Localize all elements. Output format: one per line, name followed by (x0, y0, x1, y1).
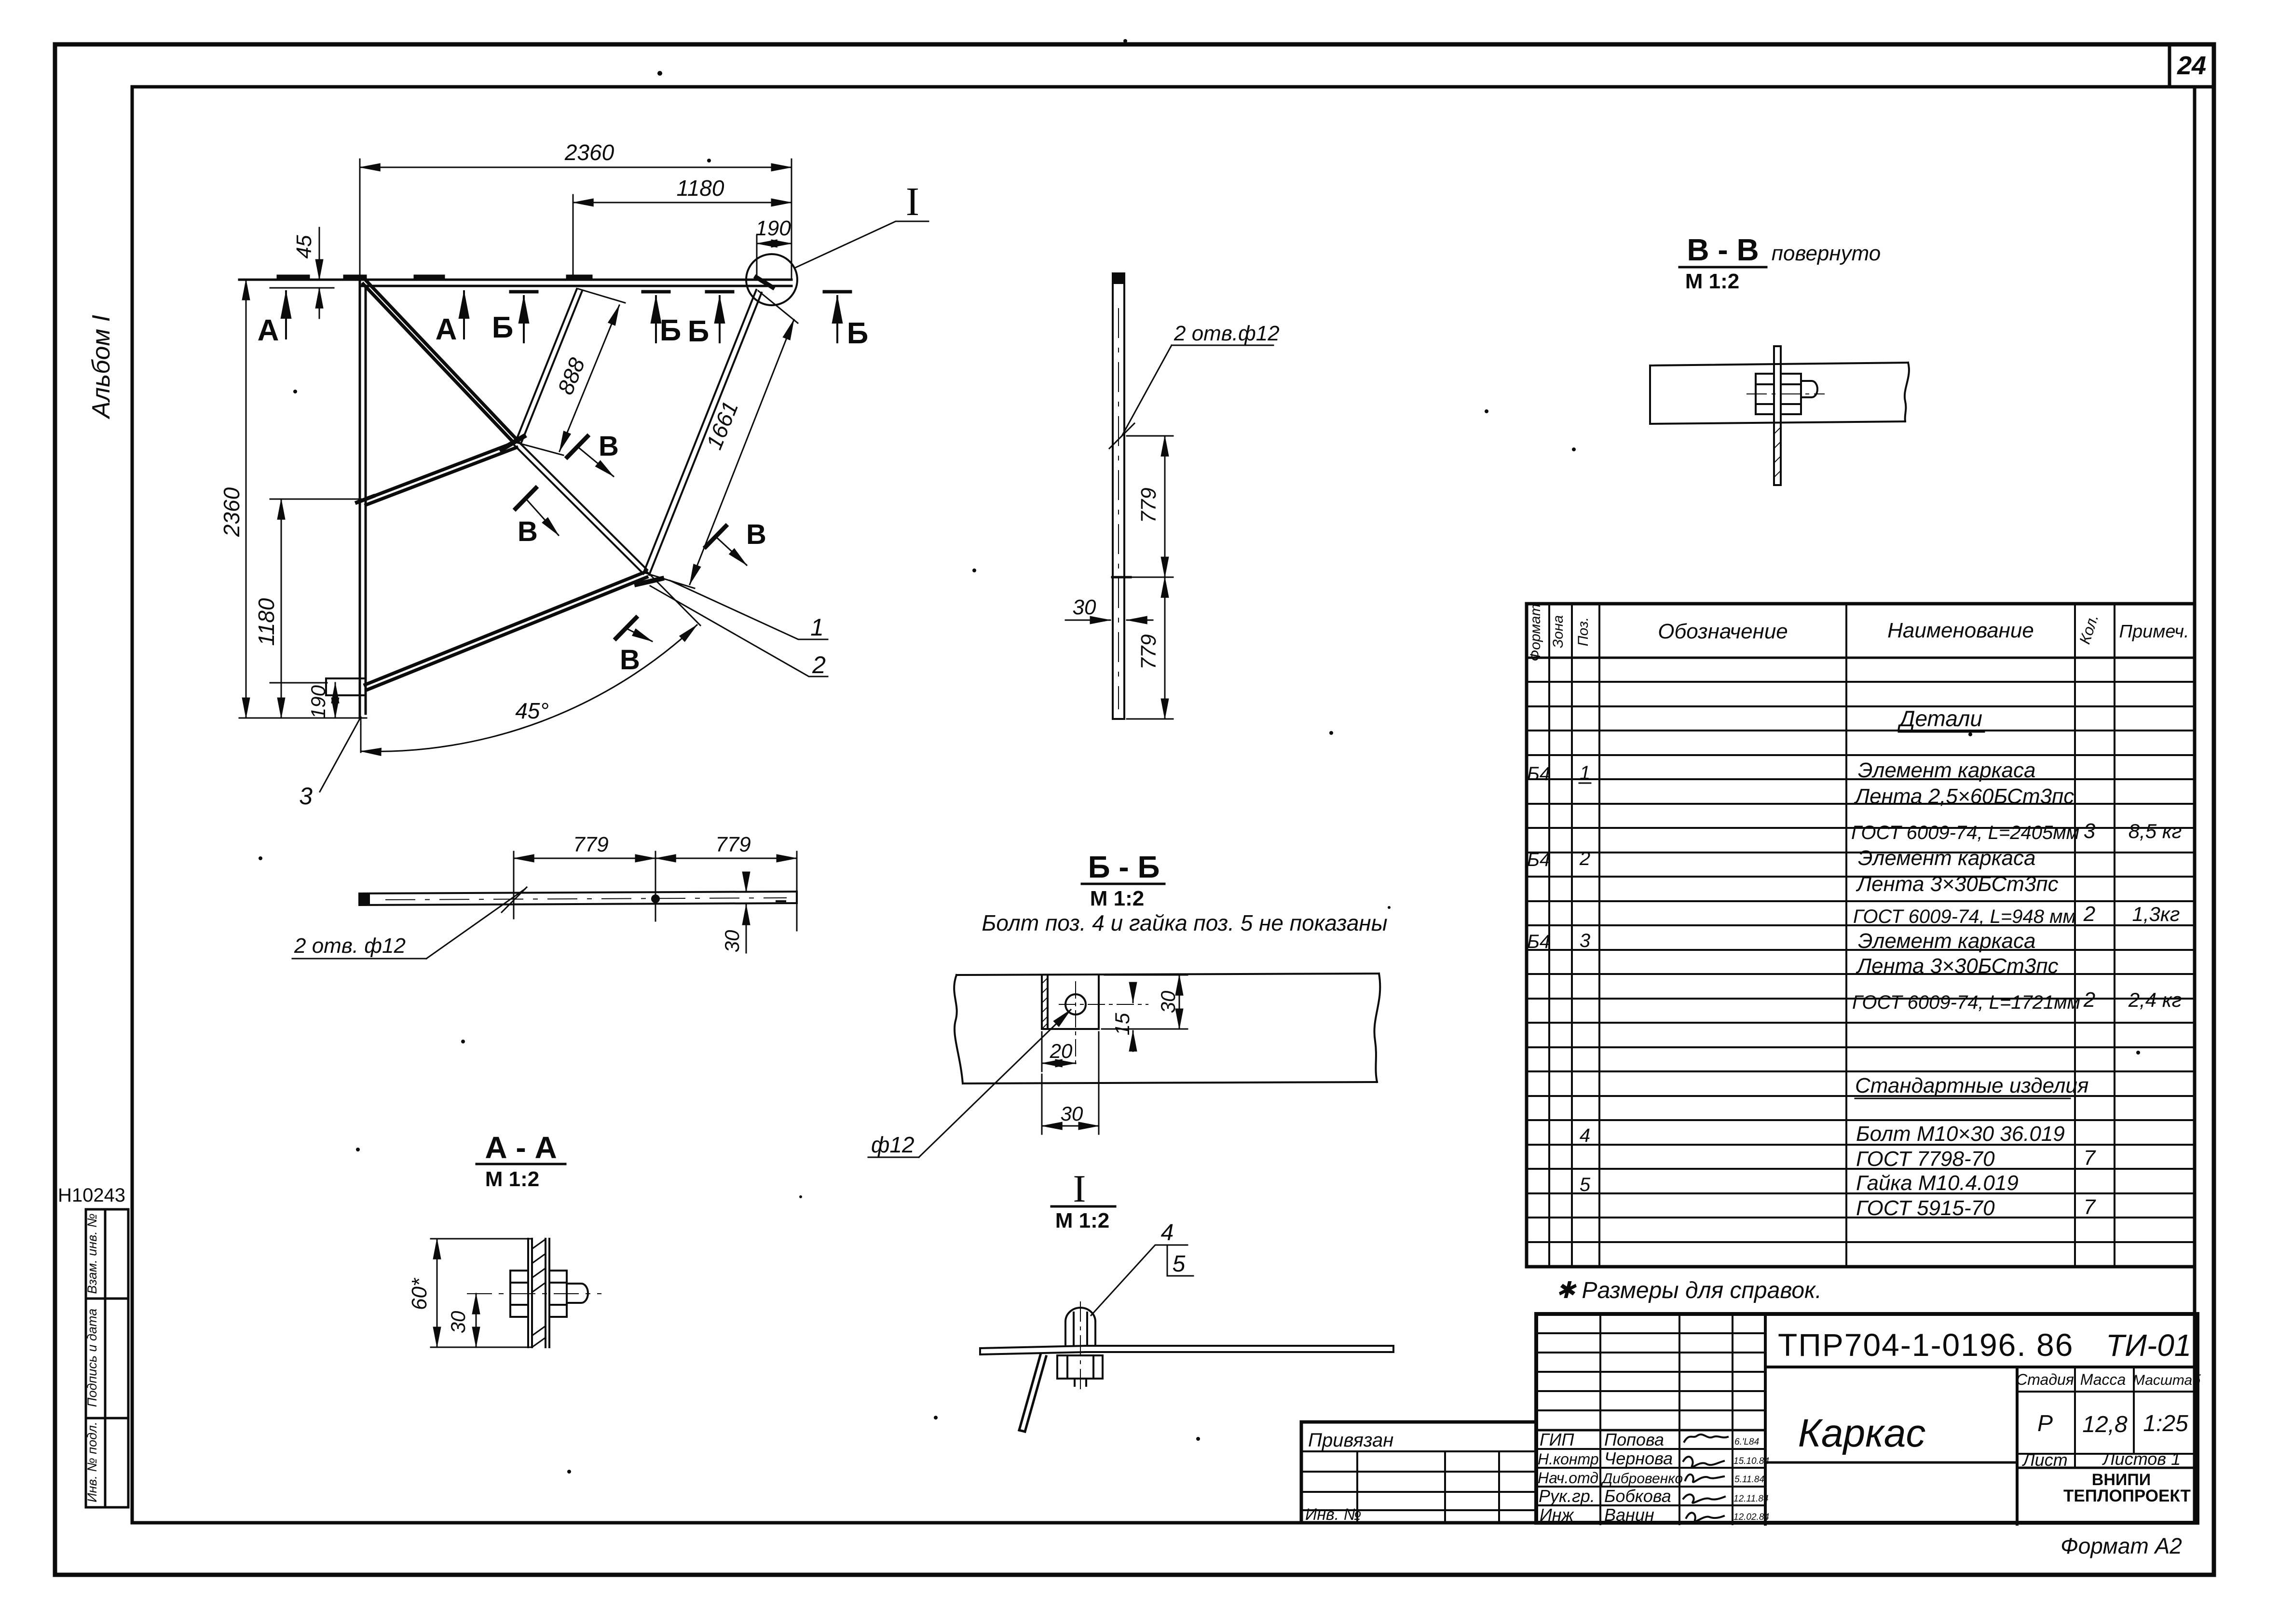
svg-text:Ванин: Ванин (1604, 1505, 1654, 1525)
svg-text:2: 2 (2083, 988, 2095, 1012)
svg-text:Б: Б (847, 317, 869, 350)
svg-text:190: 190 (307, 685, 329, 719)
svg-text:М 1:2: М 1:2 (1685, 270, 1739, 293)
svg-text:В: В (599, 431, 619, 462)
lower strut (pos 3) (365, 572, 647, 690)
svg-text:Формат А2: Формат А2 (2061, 1533, 2182, 1558)
svg-text:Р: Р (2037, 1411, 2053, 1436)
svg-text:Б4: Б4 (1527, 931, 1550, 952)
dim 1180 top (573, 195, 792, 279)
svg-text:Обозначение: Обозначение (1658, 620, 1788, 643)
svg-text:1,3кг: 1,3кг (2132, 903, 2180, 925)
svg-text:Болт поз. 4 и гайка поз. 5 не: Болт поз. 4 и гайка поз. 5 не показаны (982, 910, 1387, 935)
svg-text:8,5 кг: 8,5 кг (2129, 820, 2182, 842)
svg-text:Б4: Б4 (1527, 763, 1550, 785)
svg-text:Инв. № подл.: Инв. № подл. (85, 1421, 99, 1502)
bottom-left connection plate (326, 678, 365, 695)
svg-text:Кол.: Кол. (2076, 612, 2102, 646)
dim 779/779 (horizontal strip) (514, 852, 797, 931)
svg-text:Б: Б (688, 315, 710, 348)
svg-text:ГОСТ 6009-74, L=948 мм: ГОСТ 6009-74, L=948 мм (1853, 906, 2076, 927)
svg-text:ГОСТ 6009-74, L=2405мм: ГОСТ 6009-74, L=2405мм (1851, 822, 2079, 843)
horizontal strip body (359, 892, 797, 905)
svg-text:Нач.отд: Нач.отд (1538, 1469, 1598, 1487)
top member connection plate dashes (279, 277, 773, 287)
svg-text:2: 2 (2083, 902, 2095, 926)
В-В vertical band through joint (1774, 346, 1781, 485)
svg-text:779: 779 (1137, 634, 1160, 669)
svg-text:3: 3 (2084, 819, 2096, 843)
scan speckles (259, 39, 2140, 1474)
svg-text:Наименование: Наименование (1887, 619, 2034, 642)
member 1661 (pos 3) (644, 290, 762, 575)
svg-text:М 1:2: М 1:2 (1055, 1209, 1109, 1232)
junction plate dash at left member mid (357, 496, 373, 502)
right columns verticals (2017, 1367, 2134, 1524)
section mark В 1 (567, 431, 619, 476)
svg-text:Лист: Лист (2022, 1450, 2068, 1470)
dim 15 (Б-Б) (1102, 984, 1141, 1051)
detail I leader (794, 221, 928, 268)
title block left grid rows (1536, 1333, 1765, 1505)
В-В bolt centre line (1747, 393, 1824, 394)
detail I nut (1057, 1355, 1103, 1386)
svg-text:2: 2 (812, 651, 826, 678)
svg-text:Попова: Попова (1604, 1430, 1664, 1449)
svg-text:Элемент каркаса: Элемент каркаса (1858, 758, 2035, 782)
svg-text:Лента 2,5×60БСт3пс: Лента 2,5×60БСт3пс (1854, 785, 2074, 808)
svg-text:12.02.84: 12.02.84 (1733, 1512, 1769, 1522)
привязан grid (1301, 1451, 1536, 1523)
svg-text:3: 3 (299, 783, 313, 810)
section mark Б 2 (643, 292, 681, 347)
dim 1180 left (270, 499, 363, 718)
svg-text:Поз.: Поз. (1575, 617, 1591, 646)
horizontal strip left cap (359, 893, 370, 905)
leader 4/5 (detail I) (1091, 1245, 1193, 1315)
leader 3 (320, 717, 361, 792)
dim 45 top left (270, 228, 334, 318)
svg-text:М 1:2: М 1:2 (485, 1167, 539, 1191)
top member (pos 1) (239, 280, 792, 286)
В-В plate (1650, 363, 1909, 424)
svg-text:I: I (1073, 1168, 1086, 1210)
dim 888 along strut (517, 289, 625, 455)
Б-Б plate outline (954, 974, 1380, 1083)
В-В nut left half (1756, 374, 1774, 414)
svg-text:А - А: А - А (485, 1130, 557, 1165)
svg-text:1180: 1180 (677, 176, 724, 201)
svg-text:45°: 45° (515, 698, 549, 723)
svg-text:Б - Б: Б - Б (1088, 850, 1160, 884)
hole mark right small (777, 900, 785, 902)
svg-text:1: 1 (1580, 762, 1590, 784)
spec table header line (1527, 657, 2195, 659)
cell divider under Каркас (1765, 1462, 2017, 1464)
section mark A right (463, 291, 465, 338)
svg-text:Альбом I: Альбом I (87, 315, 115, 420)
svg-text:30: 30 (1061, 1102, 1083, 1125)
doc number cell divider (1765, 1366, 2197, 1368)
svg-text:20: 20 (1050, 1040, 1073, 1062)
svg-text:Н.контр.: Н.контр. (1538, 1450, 1603, 1468)
section mark Б 3 (688, 292, 733, 348)
svg-text:1661: 1661 (701, 398, 743, 453)
svg-text:ГОСТ 6009-74, L=1721мм: ГОСТ 6009-74, L=1721мм (1852, 992, 2080, 1013)
svg-text:1180: 1180 (254, 598, 279, 646)
stadia header row (2017, 1392, 2197, 1468)
svg-text:✱ Размеры для справок.: ✱ Размеры для справок. (1556, 1278, 1822, 1303)
spec table row lines (1527, 682, 2195, 1242)
svg-text:Дибровенко: Дибровенко (1601, 1471, 1683, 1487)
svg-text:2360: 2360 (564, 140, 614, 165)
section mark Б 4 (824, 292, 868, 350)
left vertical member (pos 1) (360, 280, 366, 718)
svg-text:В - В: В - В (1687, 232, 1759, 267)
svg-text:повернуто: повернуто (1772, 242, 1881, 265)
svg-text:Детали: Детали (1897, 706, 1982, 731)
hole mark upper (1109, 423, 1134, 448)
svg-text:60*: 60* (408, 1277, 431, 1310)
detail circle I (746, 254, 797, 305)
svg-text:2360: 2360 (219, 487, 244, 537)
svg-text:В: В (746, 519, 766, 550)
hole mark left (502, 887, 527, 912)
svg-text:30: 30 (1157, 990, 1179, 1013)
title block frame (1536, 1314, 2197, 1523)
svg-text:ф12: ф12 (871, 1132, 914, 1157)
svg-text:ГОСТ 7798-70: ГОСТ 7798-70 (1856, 1147, 1995, 1171)
svg-text:Примеч.: Примеч. (2119, 622, 2189, 642)
detail I bolt head (1065, 1308, 1095, 1346)
vertical strip top cap (1112, 273, 1125, 284)
section mark В 3 (706, 519, 766, 565)
vertical strip body (1113, 273, 1124, 719)
dim 779/779 (vertical strip) (1127, 436, 1173, 719)
svg-text:1:25: 1:25 (2143, 1411, 2188, 1436)
dim 20 (Б-Б) (1042, 1032, 1076, 1071)
page number box (2170, 44, 2214, 87)
svg-text:Лента 3×30БСт3пс: Лента 3×30БСт3пс (1856, 954, 2059, 978)
svg-text:Взам. инв. №: Взам. инв. № (85, 1214, 99, 1294)
svg-text:Лента 3×30БСт3пс: Лента 3×30БСт3пс (1856, 872, 2059, 896)
В-В nut right half (1781, 374, 1801, 414)
svg-text:5: 5 (1580, 1174, 1591, 1195)
diagonal thin extension to 45deg point (647, 572, 700, 625)
svg-text:30: 30 (721, 930, 743, 952)
svg-text:30: 30 (1073, 595, 1096, 619)
45 degree arc (361, 625, 697, 752)
svg-text:Привязан: Привязан (1308, 1430, 1393, 1451)
leader 2 отв. ф12 (horizontal strip) (292, 889, 525, 959)
svg-text:Стандартные изделия: Стандартные изделия (1855, 1074, 2088, 1097)
svg-text:779: 779 (1137, 487, 1160, 523)
svg-text:2,4 кг: 2,4 кг (2128, 988, 2182, 1011)
section mark В 2 (516, 488, 559, 547)
svg-text:12,8: 12,8 (2082, 1412, 2128, 1437)
svg-text:5.11.84: 5.11.84 (1734, 1475, 1764, 1485)
leader 1 (670, 581, 828, 639)
spec table frame (1527, 604, 2195, 1267)
svg-text:Н10243: Н10243 (58, 1185, 125, 1206)
svg-text:Подпись и дата: Подпись и дата (85, 1309, 99, 1407)
main diagonal member lower segment (513, 440, 647, 574)
svg-text:Чернова: Чернова (1604, 1448, 1673, 1468)
svg-text:А: А (436, 313, 457, 346)
svg-text:3: 3 (1580, 930, 1590, 951)
svg-text:45: 45 (292, 235, 316, 258)
svg-text:4: 4 (1580, 1125, 1590, 1146)
junction plate dash at mid joint (502, 436, 524, 449)
dim 30 right (Б-Б) (1105, 975, 1187, 1029)
section mark A left (285, 291, 287, 338)
В-В bolt end (1801, 381, 1817, 397)
detail I plate (980, 1346, 1393, 1354)
svg-text:15.10.84: 15.10.84 (1733, 1456, 1769, 1466)
spec table verticals (1549, 604, 2115, 1267)
section mark В 4 (616, 618, 652, 676)
svg-text:7: 7 (2084, 1195, 2096, 1219)
svg-text:30: 30 (447, 1311, 469, 1333)
svg-text:Б: Б (660, 314, 682, 347)
dim 30 (horizontal strip) (746, 879, 747, 953)
A-A bolt centre line (467, 1293, 601, 1294)
dim 30 (A-A) (476, 1294, 477, 1347)
middle strut (pos 2) (365, 442, 517, 505)
svg-text:4: 4 (1161, 1220, 1174, 1245)
section mark Б 1 (492, 292, 537, 344)
dim 60* (A-A) (431, 1239, 531, 1347)
svg-text:1: 1 (810, 614, 824, 641)
svg-text:Каркас: Каркас (1798, 1411, 1926, 1455)
dim 2360 left (239, 280, 367, 718)
svg-text:Элемент каркаса: Элемент каркаса (1858, 929, 2035, 953)
svg-text:ГИП: ГИП (1540, 1430, 1574, 1449)
привязан frame (1301, 1422, 1536, 1523)
hole mark middle (651, 894, 660, 903)
dim 2360 top (360, 159, 792, 279)
svg-text:190: 190 (755, 217, 791, 240)
main diagonal member upper segment (pos 1) (363, 281, 517, 442)
svg-text:Масштаб: Масштаб (2133, 1372, 2201, 1388)
svg-text:Формат: Формат (1528, 604, 1543, 661)
svg-text:Масса: Масса (2080, 1371, 2126, 1388)
svg-text:Бобкова: Бобкова (1604, 1486, 1671, 1506)
svg-text:Элемент каркаса: Элемент каркаса (1858, 846, 2035, 870)
detail I diagonal band (1019, 1355, 1046, 1432)
dim 30 (vertical strip) (1065, 620, 1153, 621)
svg-text:Инв. №: Инв. № (1305, 1505, 1362, 1524)
svg-text:I: I (906, 179, 919, 224)
leader 2 (650, 586, 828, 677)
svg-text:ТИ-01: ТИ-01 (2106, 1328, 2191, 1363)
A-A nut left half (510, 1271, 528, 1317)
svg-text:А: А (258, 314, 279, 347)
detail I bolt centre line (1080, 1302, 1081, 1393)
A-A vertical band (hatched) (528, 1239, 549, 1347)
svg-text:Стадия: Стадия (2016, 1371, 2074, 1388)
svg-text:Б: Б (492, 311, 514, 344)
margin attribute boxes (86, 1209, 128, 1507)
hole mark mid (1112, 576, 1131, 579)
dim 30 bottom (Б-Б) (1042, 1032, 1099, 1134)
title block left grid columns (1600, 1314, 1765, 1524)
svg-text:24: 24 (2177, 51, 2206, 80)
svg-text:В: В (518, 516, 538, 547)
svg-text:2: 2 (1579, 848, 1590, 869)
Б-Б hole ф12 (1065, 994, 1086, 1015)
svg-text:Болт М10×30 36.019: Болт М10×30 36.019 (1856, 1122, 2065, 1146)
Б-Б hole centre lines (1059, 982, 1148, 1066)
svg-text:2 отв.ф12: 2 отв.ф12 (1174, 322, 1280, 345)
svg-text:Рук.гр.: Рук.гр. (1539, 1486, 1595, 1506)
svg-text:Б4: Б4 (1527, 849, 1550, 870)
dim 1661 along member (645, 291, 798, 588)
dim 190 top right (757, 236, 792, 279)
svg-text:2 отв. ф12: 2 отв. ф12 (294, 934, 406, 958)
svg-text:6.'L84: 6.'L84 (1734, 1437, 1759, 1447)
svg-text:779: 779 (715, 833, 751, 856)
svg-text:7: 7 (2084, 1146, 2096, 1170)
svg-text:ТЕПЛОПРОЕКТ: ТЕПЛОПРОЕКТ (2063, 1487, 2191, 1505)
svg-text:В: В (620, 644, 640, 676)
dim 190 bottom left (270, 683, 335, 718)
leader 2 отв ф12 (vertical strip) (1122, 345, 1273, 436)
svg-text:ТПР704-1-0196. 86: ТПР704-1-0196. 86 (1778, 1327, 2074, 1363)
leader ф12 (Б-Б) (868, 1010, 1071, 1157)
svg-text:5: 5 (1173, 1251, 1186, 1277)
svg-text:15: 15 (1111, 1013, 1133, 1035)
strut 888 (pos 2) (516, 289, 582, 444)
svg-text:Листов 1: Листов 1 (2102, 1449, 2181, 1469)
svg-text:ГОСТ 5915-70: ГОСТ 5915-70 (1856, 1196, 1995, 1220)
svg-text:Гайка М10.4.019: Гайка М10.4.019 (1856, 1171, 2019, 1195)
svg-text:Инж: Инж (1540, 1505, 1575, 1525)
A-A bolt end (567, 1284, 588, 1303)
svg-text:779: 779 (573, 833, 608, 856)
Б-Б overlapped band end (1042, 975, 1099, 1029)
junction plate dash at lower joint (637, 579, 662, 584)
svg-text:М 1:2: М 1:2 (1090, 887, 1144, 910)
svg-text:12.11.84: 12.11.84 (1733, 1494, 1769, 1504)
A-A nut right half (549, 1271, 567, 1317)
svg-text:Зона: Зона (1550, 615, 1566, 648)
